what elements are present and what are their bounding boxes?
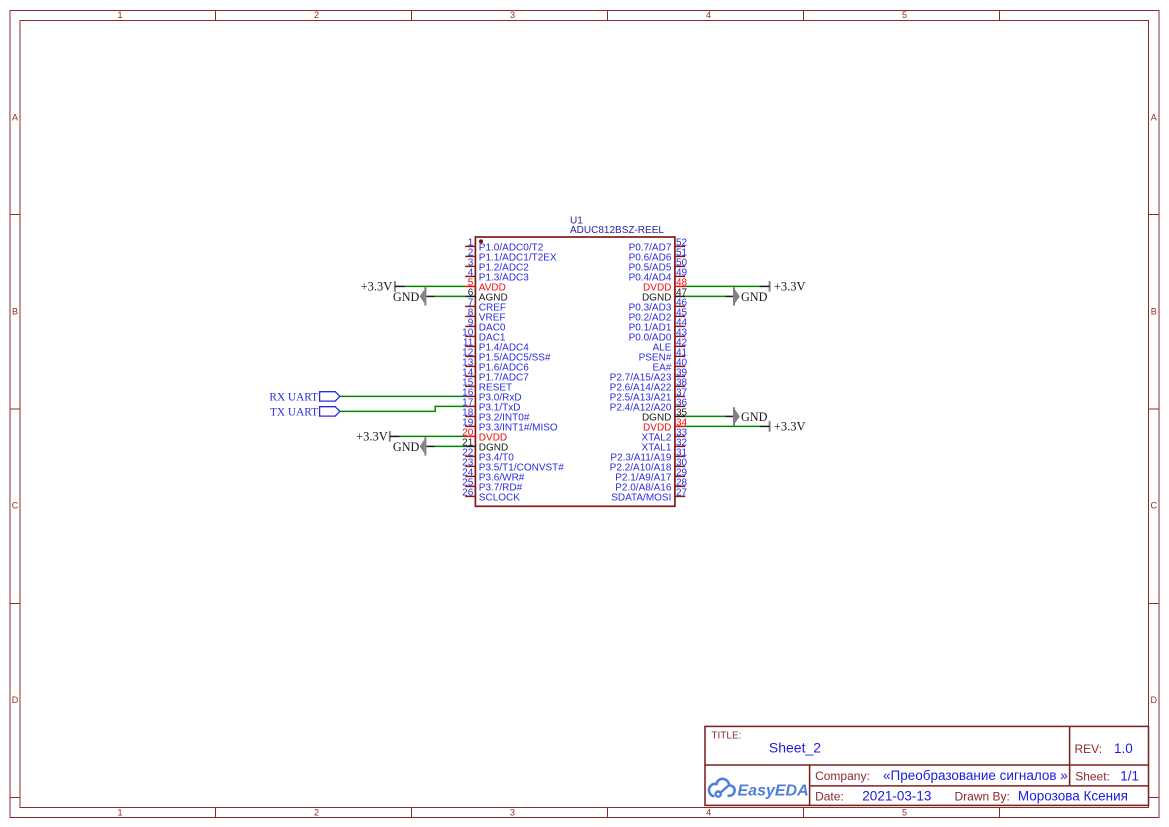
pin 10: DAC1 (left): [462, 328, 506, 344]
svg-text:GND: GND: [741, 410, 768, 424]
pin 12: P1.5/ADC5/SS# (left): [462, 348, 551, 364]
svg-text:SDATA/MOSI: SDATA/MOSI: [611, 492, 671, 503]
svg-text:ADUC812BSZ-REEL: ADUC812BSZ-REEL: [570, 225, 664, 236]
svg-text:1: 1: [117, 10, 122, 20]
pin 37: P2.5/A13/A21 (right): [610, 388, 688, 404]
svg-text:GND: GND: [741, 290, 768, 304]
pin 34: DVDD (right): [643, 418, 688, 434]
power flag +3.3V (to U1 pin 5 AVDD): [361, 280, 405, 294]
pin 30: P2.2/A10/A18 (right): [610, 458, 688, 474]
pin 9: DAC0 (left): [465, 318, 506, 334]
pin 22: P3.4/T0 (left): [462, 448, 514, 464]
pin 15: RESET (left): [462, 378, 512, 394]
wire U1 pin 35 to GND: [685, 415, 725, 417]
pin 49: P0.4/AD4 (right): [629, 268, 688, 284]
svg-text:B: B: [12, 307, 18, 317]
pin 7: CREF (left): [465, 298, 506, 314]
svg-text:4: 4: [706, 10, 711, 20]
svg-text:A: A: [1151, 113, 1157, 123]
svg-text:Sheet_2: Sheet_2: [769, 740, 821, 756]
wire U1 pin 34 to +3.3V: [685, 425, 760, 427]
pin 31: P2.3/A11/A19 (right): [610, 448, 687, 464]
pin 42: ALE (right): [652, 338, 687, 354]
svg-text:RX UART: RX UART: [269, 392, 318, 404]
svg-text:EasyEDA: EasyEDA: [738, 782, 809, 799]
svg-text:B: B: [1151, 307, 1157, 317]
svg-text:+3.3V: +3.3V: [774, 420, 806, 434]
ground flag GND (to U1 pin 21 DGND): [393, 437, 435, 455]
svg-text:+3.3V: +3.3V: [356, 430, 388, 444]
svg-text:1.0: 1.0: [1114, 741, 1133, 756]
power flag +3.3V (to U1 pin 20 DVDD): [356, 430, 400, 444]
wire U1 pin 48 to +3.3V: [685, 285, 760, 287]
wire +3.3V to U1 pin 5: [405, 285, 465, 287]
svg-text:Date:: Date:: [815, 790, 844, 804]
pin 1: P1.0/ADC0/T2 (left): [465, 238, 544, 254]
svg-text:Company:: Company:: [815, 769, 870, 783]
pin 20: DVDD (left): [462, 428, 507, 444]
wire +3.3V to U1 pin 20: [400, 435, 465, 437]
pin 29: P2.1/A9/A17 (right): [615, 468, 687, 484]
svg-text:C: C: [12, 501, 19, 511]
svg-text:1: 1: [117, 808, 122, 818]
pin 3: P1.2/ADC2 (left): [465, 258, 529, 274]
svg-text:GND: GND: [393, 440, 420, 454]
pin 44: P0.1/AD1 (right): [629, 318, 688, 334]
pin 38: P2.6/A14/A22 (right): [610, 378, 688, 394]
pin 28: P2.0/A8/A16 (right): [615, 478, 687, 494]
svg-text:2021-03-13: 2021-03-13: [862, 789, 931, 804]
svg-text:C: C: [1151, 501, 1158, 511]
pin 17: P3.1/TxD (left): [462, 398, 520, 414]
pin 48: DVDD (right): [643, 278, 688, 294]
svg-text:+3.3V: +3.3V: [774, 280, 806, 294]
wire GND to U1 pin 21: [435, 445, 465, 447]
svg-text:1/1: 1/1: [1120, 769, 1139, 784]
svg-text:«Преобразование сигналов »: «Преобразование сигналов »: [883, 768, 1068, 783]
svg-text:5: 5: [902, 808, 907, 818]
svg-text:GND: GND: [393, 290, 420, 304]
pin 45: P0.2/AD2 (right): [629, 308, 688, 324]
svg-text:+3.3V: +3.3V: [361, 280, 393, 294]
pin 39: P2.7/A15/A23 (right): [610, 368, 688, 384]
ground flag GND (at U1 pin 47 DGND): [725, 287, 768, 305]
power flag +3.3V (at U1 pin 34 DVDD): [760, 420, 806, 434]
pin 14: P1.7/ADC7 (left): [462, 368, 529, 384]
svg-text:2: 2: [314, 10, 319, 20]
pin 32: XTAL1 (right): [642, 438, 688, 454]
svg-text:2: 2: [314, 808, 319, 818]
pin 19: P3.3/INT1#/MISO (left): [462, 418, 558, 434]
pin 35: DGND (right): [642, 408, 688, 424]
svg-text:TITLE:: TITLE:: [711, 731, 741, 742]
pin 21: DGND (left): [462, 438, 508, 454]
wire GND to U1 pin 6: [435, 295, 465, 297]
wire U1 pin 47 to GND: [685, 295, 725, 297]
pin 41: PSEN# (right): [639, 348, 688, 364]
pin 25: P3.7/RD# (left): [462, 478, 522, 494]
pin 5: AVDD (left): [465, 278, 506, 294]
svg-text:Drawn By:: Drawn By:: [955, 790, 1010, 804]
svg-text:26: 26: [462, 488, 474, 499]
svg-text:REV:: REV:: [1075, 742, 1103, 756]
pin 50: P0.5/AD5 (right): [629, 258, 688, 274]
svg-text:27: 27: [676, 488, 688, 499]
pin 11: P1.4/ADC4 (left): [463, 338, 529, 354]
pin 4: P1.3/ADC3 (left): [465, 268, 529, 284]
pin 33: XTAL2 (right): [642, 428, 688, 444]
pin 47: DGND (right): [642, 288, 688, 304]
svg-text:SCLOCK: SCLOCK: [479, 492, 520, 503]
pin 43: P0.0/AD0 (right): [629, 328, 688, 344]
IC U1 ADUC812BSZ-REEL body: [475, 237, 675, 506]
pin 6: AGND (left): [465, 288, 508, 304]
ground flag GND (at U1 pin 35 DGND): [725, 407, 768, 425]
pin 40: EA# (right): [652, 358, 687, 374]
pin 27: SDATA/MOSI (right): [611, 488, 687, 504]
svg-text:4: 4: [706, 808, 711, 818]
net flag RX UART: [269, 392, 339, 404]
pin 46: P0.3/AD3 (right): [629, 298, 688, 314]
svg-text:TX UART: TX UART: [270, 407, 318, 419]
power flag +3.3V (at U1 pin 48 DVDD): [760, 280, 806, 294]
svg-text:5: 5: [902, 10, 907, 20]
EasyEDA logo: [709, 779, 809, 800]
ground flag GND (to U1 pin 6 AGND): [393, 287, 435, 305]
svg-text:A: A: [12, 113, 18, 123]
pin 16: P3.0/RxD (left): [462, 388, 521, 404]
pin 13: P1.6/ADC6 (left): [462, 358, 529, 374]
svg-text:D: D: [1151, 695, 1158, 705]
pin 23: P3.5/T1/CONVST# (left): [462, 458, 564, 474]
pin 51: P0.6/AD6 (right): [629, 248, 688, 264]
wire RX UART to U1 pin 16: [340, 395, 465, 397]
svg-text:3: 3: [510, 808, 515, 818]
wire TX UART to U1 pin 17 (with jog): [340, 406, 465, 411]
svg-text:Sheet:: Sheet:: [1075, 770, 1110, 784]
pin 52: P0.7/AD7 (right): [629, 238, 688, 254]
pin 36: P2.4/A12/A20 (right): [610, 398, 688, 414]
pin 24: P3.6/WR# (left): [462, 468, 525, 484]
pin 26: SCLOCK (left): [462, 488, 520, 504]
svg-text:3: 3: [510, 10, 515, 20]
pin 8: VREF (left): [465, 308, 505, 324]
net flag TX UART: [270, 407, 340, 419]
svg-text:Морозова Ксения: Морозова Ксения: [1018, 789, 1128, 804]
title block: [705, 726, 1149, 805]
pin 18: P3.2/INT0# (left): [462, 408, 530, 424]
svg-text:D: D: [12, 695, 19, 705]
pin 2: P1.1/ADC1/T2EX (left): [465, 248, 557, 264]
